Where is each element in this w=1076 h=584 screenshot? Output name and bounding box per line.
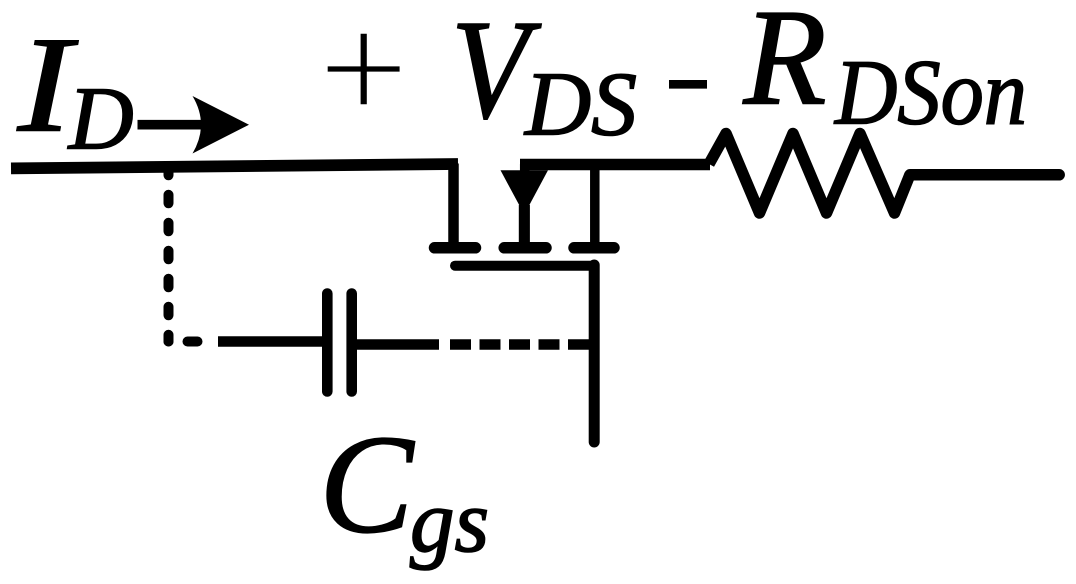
wire dashed vertical (drain node to C_gs) (164, 167, 174, 342)
transistor M1 drain stub (448, 164, 459, 243)
label V_DS (451, 0, 637, 155)
resistor R_DSon zigzag (709, 134, 910, 214)
label C_gs (319, 407, 489, 572)
label I_D (17, 9, 134, 169)
transistor M1 source contact bar (574, 242, 614, 254)
capacitor C_gs right plate (346, 294, 357, 392)
wire right lead of resistor (910, 169, 1059, 181)
svg-text:gs: gs (410, 473, 489, 571)
wire dash segment to capacitor (188, 337, 198, 347)
wire drain (left horizontal) (11, 164, 458, 168)
transistor M1 body diode arrow (501, 170, 549, 214)
wire source (top, MOSFET to resistor) (520, 159, 710, 171)
transistor M1 gate electrode (455, 261, 594, 271)
svg-text:R: R (743, 0, 827, 134)
svg-text:C: C (319, 407, 415, 563)
transistor M1 gate lead (vertical) (589, 265, 600, 442)
svg-text:D: D (67, 70, 134, 169)
capacitor C_gs left plate (322, 294, 333, 392)
label - (V_DS minus sign) (669, 80, 707, 89)
capacitor C_gs left lead (218, 336, 322, 347)
label + (V_DS plus sign) (328, 34, 400, 104)
transistor M1 body stub (520, 164, 530, 243)
transistor M1 drain contact bar (435, 242, 476, 254)
transistor M1 body contact bar (504, 242, 546, 254)
capacitor C_gs right lead (357, 339, 439, 350)
label R_DSon (743, 0, 1027, 145)
wire dashed corner dot (164, 337, 174, 347)
wire dashed horizontal (capacitor to gate) (450, 339, 589, 350)
transistor M1 source stub (590, 165, 600, 244)
current arrow I_D (138, 96, 250, 154)
svg-text:DS: DS (523, 54, 637, 155)
